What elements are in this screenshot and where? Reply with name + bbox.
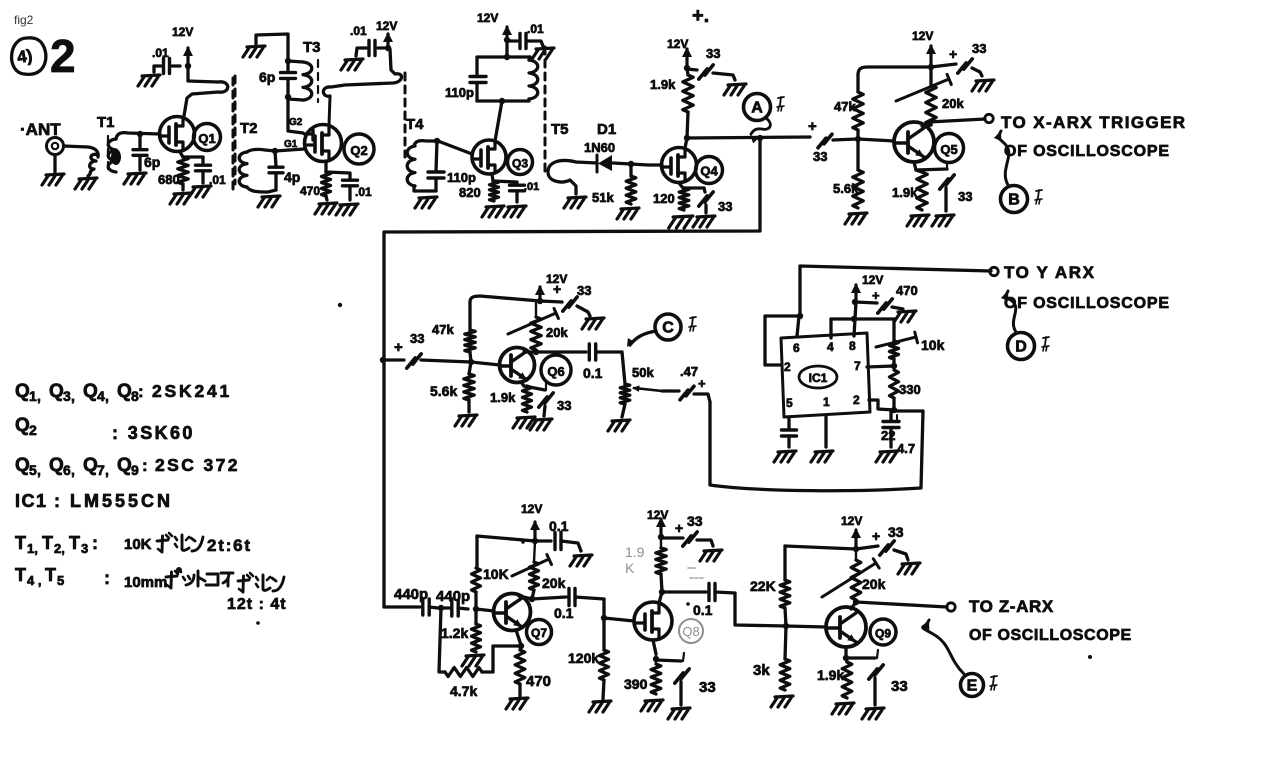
svg-text:12V: 12V — [376, 19, 397, 33]
wire collector Q5 — [922, 122, 931, 126]
svg-text:2: 2 — [853, 393, 860, 407]
ground rail Q9 — [898, 563, 920, 574]
5.6k label middle — [430, 383, 457, 399]
wire input corner bottom — [384, 605, 420, 608]
bottom loop wire — [710, 402, 923, 491]
cap 33 top Q8 — [661, 520, 713, 546]
svg-text:8: 8 — [849, 339, 856, 353]
ground T1 link — [75, 174, 97, 189]
pin 3 label — [853, 393, 860, 407]
ground T5 link — [564, 197, 586, 208]
svg-text:4.7k: 4.7k — [450, 683, 477, 699]
rail wire Q9 — [785, 546, 856, 549]
node D circle — [1008, 333, 1035, 360]
node B leader — [994, 131, 1009, 185]
katakana potcore bobbin line6 — [166, 568, 284, 592]
svg-text:Q9: Q9 — [875, 627, 891, 641]
svg-text:1N60: 1N60 — [584, 140, 615, 155]
svg-text:9: 9 — [131, 462, 139, 478]
svg-text:12V: 12V — [667, 37, 688, 51]
coupling cap 0.1 out Q7 — [532, 589, 604, 606]
svg-text:,: , — [37, 388, 41, 404]
parts list 12t:4t — [227, 596, 287, 613]
node tank tap — [499, 98, 505, 104]
capacitor .01 under Q3 — [510, 185, 525, 202]
svg-text:+: + — [394, 339, 403, 356]
wire gate Q4 — [648, 163, 662, 166]
svg-text::: : — [142, 456, 148, 475]
svg-text:.01: .01 — [209, 173, 226, 187]
svg-text:22: 22 — [881, 428, 895, 443]
1N60 label — [584, 140, 615, 155]
680 value label — [158, 172, 180, 187]
OF OSCILLOSCOPE label Z — [969, 627, 1132, 644]
ground 6p — [124, 173, 146, 184]
rail cap 0.1 bottom — [535, 533, 581, 552]
ground 680 — [170, 193, 192, 204]
22K label — [750, 578, 776, 594]
stage separator dashed line 2 — [234, 76, 237, 184]
svg-text:6: 6 — [793, 341, 800, 355]
capacitor 33 emitter Q5 — [916, 162, 954, 211]
svg-text:120k: 120k — [568, 650, 599, 666]
svg-text:2,: 2, — [54, 541, 65, 556]
svg-text:1.9: 1.9 — [625, 544, 645, 560]
transistor Q8 (2SK241) — [634, 602, 672, 640]
katakana bobbin line5 — [157, 533, 203, 552]
node D leader — [1001, 291, 1016, 332]
stray dot 5 — [1088, 655, 1092, 659]
capacitor 33 top stage4 — [687, 65, 735, 80]
svg-text:T: T — [69, 533, 80, 553]
svg-text::: : — [92, 533, 98, 553]
ground 3k — [771, 696, 793, 707]
12V supply stage1 — [172, 25, 193, 66]
node collector Q6 — [533, 349, 539, 355]
svg-text:3: 3 — [63, 388, 71, 404]
wire Q8 out corner — [735, 593, 786, 626]
svg-text:33: 33 — [813, 149, 827, 164]
wire pin6 stub — [797, 316, 799, 336]
22 label — [881, 415, 897, 443]
12V supply middle — [535, 272, 567, 300]
svg-text:,: , — [105, 462, 109, 478]
svg-text:2SC 372: 2SC 372 — [155, 455, 240, 475]
svg-text:Q2: Q2 — [350, 143, 367, 158]
svg-text:TO Y ARX: TO Y ARX — [1004, 263, 1096, 282]
node Q7 base — [473, 606, 479, 612]
wire pot top stage5 — [929, 67, 932, 85]
Q2 designator circle — [344, 134, 374, 164]
svg-text:D1: D1 — [597, 121, 616, 138]
110p label stage3 input — [447, 170, 476, 185]
T1 secondary coil — [108, 139, 121, 172]
svg-text:,: , — [71, 388, 75, 404]
33 label under Q4 — [718, 199, 732, 214]
T3 top bypass wire — [256, 34, 288, 60]
stage separator dashed line 1 — [232, 78, 235, 192]
TO Y ARX label — [1004, 263, 1096, 282]
resistor 1.9k middle — [521, 382, 532, 412]
svg-text:1,: 1, — [27, 541, 38, 556]
33 label rail middle — [577, 283, 591, 298]
node feedback tap — [757, 135, 763, 141]
svg-text:6p: 6p — [259, 69, 275, 85]
wire base Q5 — [858, 139, 894, 141]
svg-text:1.9k: 1.9k — [892, 185, 918, 200]
node rail middle — [537, 298, 543, 304]
Q1 designator circle — [194, 124, 221, 151]
svg-text:.01: .01 — [350, 24, 367, 38]
capacitor 6p stage1 — [133, 134, 147, 170]
svg-text:D: D — [1015, 339, 1027, 356]
antenna terminal J1 — [47, 138, 64, 155]
svg-text:T4: T4 — [406, 116, 424, 133]
pin 2 label — [784, 360, 791, 374]
T4 tank coil — [529, 57, 538, 99]
node 330 bottom — [891, 398, 897, 413]
gate wire Q8 — [604, 618, 634, 621]
wire T4 coil to gate — [414, 141, 472, 154]
svg-text:,: , — [37, 462, 41, 478]
svg-text:1: 1 — [823, 395, 830, 409]
parts list line IC1 — [15, 491, 173, 511]
T3 core dashes — [317, 60, 319, 102]
main signal wire row1 — [687, 137, 810, 138]
stray dot 4 — [256, 621, 260, 625]
12V supply Q9 — [841, 514, 862, 548]
cap 470 IC1 — [855, 288, 903, 313]
pin 8 label — [849, 339, 856, 353]
ground .01 stage3 — [532, 48, 554, 59]
svg-text:2SK241: 2SK241 — [152, 381, 232, 401]
svg-text:Q: Q — [15, 455, 30, 476]
gate1 wire Q2 — [275, 149, 304, 151]
svg-text:110p: 110p — [447, 170, 476, 185]
svg-text:33: 33 — [718, 199, 732, 214]
resistor 1.9k stage4 — [683, 68, 693, 138]
node collector Q7 — [529, 596, 535, 602]
node emitter Q7 — [518, 643, 524, 649]
svg-text:Q5: Q5 — [940, 142, 957, 157]
resistor 1.9k Q8 — [656, 537, 666, 592]
resistor 47k stage5 — [853, 75, 863, 139]
12V supply Q8 — [647, 508, 668, 537]
svg-text:33: 33 — [958, 189, 972, 204]
wire collector Q7 — [519, 590, 534, 599]
pin 5 label — [786, 396, 793, 410]
wire bracket pin2 — [765, 316, 800, 365]
440p label first — [394, 586, 428, 603]
.01 value label stage1 — [152, 46, 169, 60]
470 label IC1 — [896, 283, 918, 298]
svg-text:33: 33 — [706, 46, 720, 61]
wire Q1 source junction — [180, 152, 183, 157]
svg-text:5: 5 — [57, 573, 64, 588]
svg-text:T: T — [15, 533, 26, 553]
capacitor .01 under Q2 — [343, 180, 358, 200]
svg-text:33: 33 — [972, 41, 986, 56]
resistor 470 bottom — [515, 646, 525, 697]
wire source to .01 stage2 — [326, 172, 350, 178]
node tank top — [504, 40, 510, 60]
transistor Q1 (2SK241) — [160, 117, 195, 152]
svg-text:Q3: Q3 — [512, 157, 528, 171]
svg-text:T1: T1 — [97, 114, 115, 131]
4.7 label — [897, 441, 915, 456]
svg-text:T5: T5 — [551, 121, 569, 138]
capacitor 33 under Q4 — [699, 188, 713, 213]
coupling cap 0.1 Q8 — [662, 584, 735, 601]
svg-text:,: , — [71, 462, 75, 478]
svg-text:10mm: 10mm — [124, 574, 167, 591]
node Q9 base — [783, 623, 789, 629]
potentiometer 10k — [876, 332, 918, 359]
svg-text:47k: 47k — [834, 99, 856, 114]
svg-text:12V: 12V — [647, 508, 668, 522]
T4 tank bottom wire — [477, 99, 529, 101]
20k label Q9 — [862, 576, 886, 592]
svg-text:47k: 47k — [432, 322, 454, 337]
feedback loop wire — [384, 138, 760, 607]
resistor 820 — [490, 181, 499, 201]
node rail bottom — [532, 538, 538, 544]
svg-text:20k: 20k — [942, 96, 964, 111]
ground 820 — [482, 206, 504, 217]
wire tap to Q3 drain — [495, 101, 502, 141]
cap 440p first — [423, 599, 438, 615]
G2 label — [289, 117, 303, 128]
wire pin4 stub — [829, 319, 832, 338]
wire Q8 source — [653, 640, 656, 654]
ground 51k — [617, 208, 639, 219]
node collector Q9 — [853, 599, 859, 605]
ground .01 under Q1 — [189, 186, 211, 197]
svg-text:Q: Q — [15, 415, 30, 436]
node input bottom — [438, 605, 444, 611]
node E minimark — [990, 676, 997, 690]
5.6k label stage5 — [833, 181, 859, 196]
wire source to 33 cap — [683, 186, 704, 189]
ground 1.9k middle — [513, 417, 535, 428]
node rail stage5 — [928, 64, 934, 70]
IC1 designator oval — [799, 366, 837, 388]
svg-text:33: 33 — [410, 331, 424, 346]
svg-text:5.6k: 5.6k — [430, 383, 457, 399]
ground 5.6k middle — [455, 415, 477, 426]
resistor 51k — [626, 164, 636, 204]
wire 10k to pin7 node — [892, 359, 895, 366]
svg-text:5.6k: 5.6k — [833, 181, 859, 196]
svg-text:T3: T3 — [303, 39, 321, 56]
svg-text:470: 470 — [526, 673, 551, 690]
svg-text:OF OSCILLOSCOPE: OF OSCILLOSCOPE — [969, 627, 1132, 644]
svg-text:+: + — [808, 118, 817, 135]
transformer T1 label — [97, 114, 115, 131]
svg-text:+: + — [675, 520, 683, 536]
ground pin1 — [811, 451, 833, 462]
svg-text:2: 2 — [29, 422, 37, 438]
transformer T3 label — [303, 39, 321, 56]
svg-text:TO Z-ARX: TO Z-ARX — [969, 597, 1054, 616]
svg-text:Q: Q — [15, 381, 30, 402]
12V supply stage5 — [912, 29, 936, 66]
ground 1.9k Q9 — [832, 703, 854, 714]
33 label emitter Q6 — [557, 398, 571, 413]
ground under ANT terminal — [42, 174, 64, 185]
wire pin8 supply — [854, 302, 856, 336]
wire emitter Q5 — [914, 162, 916, 170]
440p label second — [436, 588, 470, 605]
svg-text:12V: 12V — [912, 29, 933, 43]
wire pin3 step — [869, 400, 894, 410]
svg-text:4.7: 4.7 — [897, 441, 915, 456]
node D1 output — [628, 161, 634, 167]
svg-text:7: 7 — [854, 359, 861, 373]
figure caption fig2 — [14, 13, 34, 27]
svg-text:20k: 20k — [546, 325, 568, 340]
svg-text:33: 33 — [557, 398, 571, 413]
node rail Q9 — [853, 546, 859, 552]
svg-text:50k: 50k — [632, 365, 654, 380]
node Q5 base junction — [855, 136, 861, 142]
cap 22 — [883, 410, 899, 447]
33 label row1 — [813, 149, 827, 164]
33 label middle input — [410, 331, 424, 346]
node emitter Q9 — [843, 655, 849, 661]
resistor 1.2k — [472, 609, 481, 652]
svg-text:470: 470 — [300, 184, 320, 198]
node C leader wavy — [630, 331, 656, 345]
node D minimark — [1042, 337, 1049, 351]
ground 33 top stage4 — [724, 84, 746, 95]
node supply IC1 — [852, 299, 858, 305]
ground 470 stage2 — [315, 203, 337, 214]
4p value label — [284, 169, 300, 185]
node Q8 drain — [659, 589, 665, 595]
svg-text:5: 5 — [29, 462, 37, 478]
svg-text:1.2k: 1.2k — [441, 625, 468, 641]
wire source to .01 stage3 — [493, 181, 517, 184]
G1 label — [284, 139, 298, 150]
33 label emitter Q5 — [958, 189, 972, 204]
svg-text:+.: +. — [692, 5, 709, 27]
wire pin7 stub — [867, 366, 894, 367]
svg-text:33: 33 — [699, 679, 716, 696]
transistor Q7 (2SC372) — [494, 594, 531, 631]
wire T4 bottom — [414, 186, 436, 191]
svg-text:Q: Q — [49, 381, 64, 402]
ground rail stage5 — [972, 80, 994, 91]
svg-text:IC1: IC1 — [809, 371, 828, 385]
svg-text:,: , — [105, 388, 109, 404]
svg-text:Q4: Q4 — [700, 164, 718, 179]
pin 1 label — [823, 395, 830, 409]
svg-text:4p: 4p — [284, 169, 300, 185]
Q6 designator circle — [541, 355, 571, 385]
12V supply stage2 — [376, 19, 397, 48]
svg-text:20k: 20k — [542, 575, 566, 591]
svg-text:12t : 4t: 12t : 4t — [227, 596, 287, 613]
resistor 5.6k middle — [464, 362, 474, 412]
svg-text::: : — [104, 568, 110, 588]
parts list line Q1 Q3 Q4 Q8 — [15, 381, 232, 404]
rail2 IC1 — [831, 317, 894, 320]
pin 4 label — [827, 340, 834, 354]
ground pin5 — [774, 451, 796, 462]
wire 4.7k branch — [439, 608, 445, 672]
T3 link loop and wire to 12V — [323, 49, 401, 126]
wire pin5 — [787, 417, 790, 429]
svg-text:T: T — [15, 565, 26, 585]
Q7 designator circle — [527, 620, 552, 645]
wire 4.7k to emitter — [482, 646, 519, 672]
svg-text:2: 2 — [50, 30, 76, 82]
svg-text:+: + — [872, 528, 880, 544]
potentiometer 20k middle — [508, 301, 558, 350]
svg-text:1: 1 — [29, 388, 37, 404]
svg-text:2: 2 — [784, 360, 791, 374]
wire T1 to Q1 gate — [116, 133, 160, 139]
resistor 1.9k Q9 — [842, 658, 852, 698]
OF OSCILLOSCOPE label X — [1004, 143, 1170, 160]
potentiometer 20k bottom — [512, 541, 552, 590]
parts list line T1 T2 T3 — [15, 533, 152, 556]
node pin6 junction — [797, 313, 803, 319]
12V supply bottom1 — [521, 502, 542, 540]
ground 50k — [608, 404, 630, 431]
transistor Q4 (2SK241) — [662, 148, 697, 183]
node 12V stage2 — [385, 45, 391, 51]
0.1 label rail bottom — [549, 518, 569, 534]
resistor 680 — [178, 157, 188, 190]
svg-text:120: 120 — [653, 191, 675, 206]
grey dashes — [688, 568, 703, 578]
ground 470 bottom — [506, 698, 528, 709]
47k label middle — [432, 322, 454, 337]
svg-text:0.1: 0.1 — [554, 605, 574, 621]
node 12V Q8 — [658, 534, 664, 540]
potentiometer 20k stage5 — [896, 74, 951, 125]
node 12V stage3 — [504, 37, 510, 43]
47k label stage5 — [834, 99, 856, 114]
svg-text:10K: 10K — [124, 536, 152, 553]
coupling cap 33 row1 — [808, 118, 857, 148]
Q9 designator circle — [870, 619, 896, 645]
wire 10k top — [892, 319, 895, 341]
terminal Z output — [947, 603, 955, 611]
svg-text:B: B — [1008, 192, 1020, 209]
wire ANT to T1 link — [64, 146, 99, 157]
0.1 label Q8 — [693, 602, 713, 618]
svg-text:+: + — [872, 288, 880, 303]
.47 label — [680, 364, 698, 379]
transformer T2 label — [240, 120, 258, 137]
svg-text:Q: Q — [83, 381, 98, 402]
hand-circled page number 4 — [12, 38, 46, 75]
page number 2 — [50, 30, 76, 82]
node 12V stage4 — [684, 65, 690, 71]
1.9k label stage5 — [892, 185, 918, 200]
svg-text:Q6: Q6 — [547, 364, 564, 379]
resistor 10k bottom — [472, 536, 481, 609]
svg-text:+: + — [698, 376, 706, 391]
ANT input label — [20, 120, 61, 139]
20k label bottom — [542, 575, 566, 591]
wire down to Q8 gate — [602, 599, 605, 618]
svg-text:Q8: Q8 — [682, 624, 699, 639]
stage separator dashed line 3 — [404, 73, 407, 157]
